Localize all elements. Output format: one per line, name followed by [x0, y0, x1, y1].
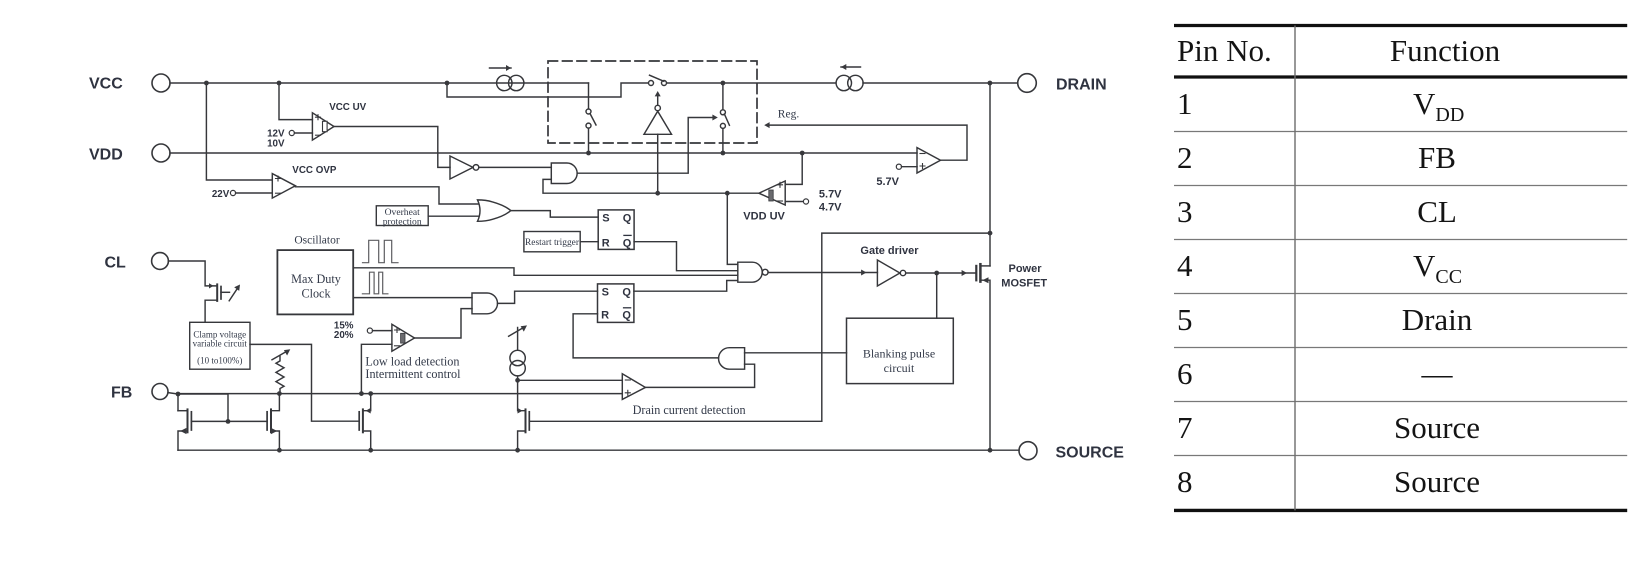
- wire top rail right section: [667, 82, 836, 84]
- wire drain comparator output to AND3 input 2: [645, 364, 754, 387]
- svg-text:—: —: [1421, 356, 1454, 391]
- wire SR1 Qbar to NAND input 2: [634, 242, 738, 271]
- svg-text:SOURCE: SOURCE: [1056, 445, 1125, 462]
- svg-text:CL: CL: [105, 255, 127, 272]
- label 20%: [334, 330, 354, 341]
- svg-text:10V: 10V: [267, 139, 285, 150]
- box restart trigger: [524, 232, 580, 252]
- label Oscillator: [294, 235, 340, 247]
- wire VDD UV line down to NAND input 1: [727, 193, 738, 264]
- wire buffer input from VDD UV output line: [657, 134, 659, 193]
- wire bottom source rail: [178, 449, 1019, 451]
- svg-text:Function: Function: [1390, 33, 1501, 68]
- node dots bottom rail: [277, 448, 992, 453]
- latch SR2: [598, 284, 634, 323]
- wire current source 2 to drain node: [863, 82, 1018, 84]
- label VDD UV: [743, 211, 785, 223]
- transistor power MOSFET: [976, 264, 990, 450]
- comparator low load 15/20: [392, 324, 415, 351]
- table header Pin No.: [1177, 33, 1272, 68]
- wire VDD rail: [170, 152, 917, 154]
- wire AND2 output to SR2 S input: [498, 291, 598, 303]
- svg-text:5: 5: [1177, 302, 1193, 337]
- wire VCC to UV plus input: [279, 83, 312, 120]
- label FB: [111, 385, 132, 402]
- comparator REG 5.7V: [917, 148, 941, 173]
- svg-text:Restart trigger: Restart trigger: [525, 238, 580, 248]
- labels latch SR1 pins: [602, 213, 632, 250]
- label Drain current detection: [633, 403, 746, 417]
- latch SR1: [598, 210, 634, 250]
- wire FB rail: [178, 393, 622, 395]
- label VDD: [89, 147, 123, 164]
- pin DRAIN: [1018, 74, 1037, 93]
- wire oscillator top output to NAND input 3: [353, 268, 738, 276]
- transistor M1: [178, 409, 267, 450]
- svg-text:20%: 20%: [334, 330, 354, 341]
- node dots on VDD UV output line: [655, 191, 729, 196]
- transistor M2: [267, 394, 279, 450]
- wire VCC UV output to NOT gate: [334, 127, 450, 168]
- label Restart trigger: [525, 238, 580, 248]
- wire clamp box output to M3 gate: [250, 344, 359, 421]
- label 22V: [212, 189, 230, 200]
- gate NAND1: [738, 262, 768, 282]
- wire gate driver output to power MOSFET gate: [906, 270, 977, 276]
- wire VCC OVP output to OR1: [295, 187, 478, 204]
- table row 2: [1177, 140, 1456, 175]
- wire VDD UV plus input to VDD rail: [785, 153, 802, 184]
- label Intermittent control: [365, 367, 461, 381]
- svg-text:Drain: Drain: [1402, 302, 1473, 337]
- table row 5: [1177, 302, 1473, 337]
- pin VCC: [152, 74, 170, 92]
- label 15%: [334, 320, 354, 331]
- table row 7: [1177, 410, 1480, 445]
- wire OR1 output to SR1 S input: [511, 211, 598, 218]
- wire VDD UV output line to AND1 lower input: [543, 179, 759, 193]
- svg-text:R: R: [601, 310, 609, 322]
- svg-text:4: 4: [1177, 248, 1193, 283]
- svg-text:6: 6: [1177, 356, 1193, 391]
- svg-text:Q: Q: [622, 286, 631, 298]
- table bottom border thick: [1174, 509, 1627, 512]
- label CL: [105, 255, 127, 272]
- switch S1: [586, 83, 596, 153]
- svg-text:Blanking pulse: Blanking pulse: [863, 346, 935, 360]
- wire SR2 Q to NAND input 4: [634, 281, 738, 292]
- wire AND3 output to SR2 R input: [573, 314, 718, 358]
- label VCC OVP: [292, 165, 337, 176]
- wire VCC to OVP plus input: [206, 83, 272, 180]
- svg-text:Q: Q: [623, 213, 632, 225]
- box blanking pulse circuit: [847, 318, 954, 383]
- inverter NOT1: [450, 156, 479, 179]
- svg-text:Drain current detection: Drain current detection: [633, 403, 746, 417]
- svg-text:Power: Power: [1009, 263, 1043, 275]
- wire FB to mirror gates: [178, 394, 230, 424]
- label Max Duty: [291, 272, 342, 286]
- node junction dots top rail: [204, 81, 992, 86]
- overline SR1 Qbar: [623, 234, 631, 236]
- label 5.7V at VDD UV: [819, 188, 842, 200]
- gate AND3 pointing left: [719, 348, 745, 370]
- comparator drain current detection: [622, 374, 645, 400]
- svg-text:DRAIN: DRAIN: [1056, 77, 1107, 94]
- svg-text:Pin No.: Pin No.: [1177, 33, 1272, 68]
- comparator VCC OVP: [272, 174, 295, 199]
- wire NAND1 output to gate driver: [768, 270, 877, 276]
- label Blanking pulse circuit: [863, 346, 935, 375]
- waveform narrow pulses: [362, 272, 388, 294]
- label Low load detection: [365, 354, 459, 368]
- box oscillator Max Duty Clock: [277, 250, 353, 314]
- svg-text:VCC: VCC: [89, 76, 123, 93]
- switch S2: [649, 75, 667, 85]
- pin SOURCE: [1019, 442, 1037, 460]
- wire restart trigger to SR1 R input: [580, 241, 598, 243]
- comparator VDD UV pointing left: [759, 181, 785, 205]
- table header separator thick: [1174, 75, 1627, 78]
- svg-text:VDD UV: VDD UV: [743, 211, 785, 223]
- inverter gate driver: [877, 260, 905, 286]
- label Gate driver: [860, 245, 919, 257]
- label Overheat protection: [383, 207, 422, 227]
- svg-text:VCC OVP: VCC OVP: [292, 165, 337, 176]
- wire VCC top rail: [170, 82, 589, 84]
- comparator VCC UV minus input terminal: [289, 130, 312, 135]
- svg-text:Clock: Clock: [301, 286, 331, 300]
- label VCC UV: [329, 102, 366, 113]
- wire CL pin to clamp transistor: [168, 261, 217, 286]
- wire AND1 output to switch S3 control: [577, 115, 718, 174]
- wire gate driver output down to blanking box: [936, 273, 938, 318]
- wire mid current source to drain comparator minus: [518, 379, 623, 381]
- wire VCC bypass under current source: [447, 83, 648, 97]
- svg-text:FB: FB: [111, 385, 132, 402]
- pin VDD: [152, 144, 170, 162]
- current source I2: [836, 64, 863, 91]
- wire NOT1 to AND1: [479, 166, 552, 168]
- table row 4: [1177, 248, 1462, 288]
- svg-text:3: 3: [1177, 194, 1193, 229]
- table row 3: [1177, 194, 1457, 229]
- svg-text:Reg.: Reg.: [778, 108, 800, 120]
- table row separators thin: [1174, 132, 1627, 456]
- wire mid current source down to M4 drain: [518, 380, 526, 410]
- label Clamp voltage variable circuit: [193, 330, 248, 366]
- table row 6: [1177, 356, 1454, 391]
- table column divider: [1294, 26, 1296, 511]
- wire blanking output to AND3 input 1: [745, 352, 847, 354]
- node dots FB rail: [176, 391, 374, 396]
- svg-text:5.7V: 5.7V: [876, 176, 899, 188]
- svg-text:1: 1: [1177, 86, 1193, 121]
- node junction dots VDD rail: [586, 151, 805, 156]
- label DRAIN: [1056, 77, 1107, 94]
- comparator VCC OVP minus input terminal: [230, 190, 272, 195]
- svg-text:protection: protection: [383, 216, 422, 227]
- comparator low load plus input terminal: [367, 328, 392, 333]
- label 4.7V at VDD UV: [819, 202, 842, 214]
- label MOSFET: [1001, 278, 1047, 290]
- comparator REG plus input terminal: [896, 164, 917, 169]
- transistor M3: [359, 394, 371, 450]
- label SOURCE: [1056, 445, 1125, 462]
- box clamp voltage variable circuit: [190, 322, 250, 369]
- buffer U-reg triangle with control arrow: [644, 91, 672, 134]
- pin CL: [152, 253, 169, 270]
- gate AND2: [472, 293, 498, 314]
- svg-text:variable circuit: variable circuit: [193, 339, 248, 349]
- svg-text:Intermittent control: Intermittent control: [365, 367, 461, 381]
- svg-text:S: S: [602, 286, 609, 298]
- wire overheat to OR1: [428, 215, 478, 217]
- svg-text:VDD: VDD: [89, 147, 123, 164]
- transistor M4: [518, 408, 822, 450]
- svg-text:MOSFET: MOSFET: [1001, 278, 1047, 290]
- svg-text:circuit: circuit: [884, 361, 915, 375]
- svg-text:Oscillator: Oscillator: [294, 235, 340, 247]
- resistor R1 variable: [272, 349, 290, 394]
- table row 8: [1177, 464, 1480, 499]
- svg-text:8: 8: [1177, 464, 1193, 499]
- table border top thick: [1174, 24, 1627, 27]
- wire low load output up to AND2 lower input: [415, 309, 473, 338]
- pin FB: [152, 384, 168, 400]
- current source I1: [490, 65, 524, 91]
- svg-text:22V: 22V: [212, 189, 230, 200]
- gate OR1: [478, 200, 511, 221]
- switch S3: [720, 83, 729, 153]
- transistor Q-CL clamp: [205, 283, 240, 322]
- svg-text:VCC UV: VCC UV: [329, 102, 366, 113]
- waveform wide pulses: [363, 240, 399, 262]
- comparator VDD UV minus input terminal: [785, 199, 808, 204]
- svg-text:Q: Q: [622, 310, 631, 322]
- box overheat protection: [376, 206, 428, 226]
- label Clock: [301, 286, 331, 300]
- overline SR2 Qbar: [623, 307, 631, 309]
- wire FB pin to rail: [168, 393, 178, 394]
- label 12V: [267, 128, 285, 139]
- current source I3 variable: [509, 325, 527, 382]
- label 5.7V at reg comparator: [876, 176, 899, 188]
- label Power: [1009, 263, 1043, 275]
- labels latch SR2 pins: [601, 286, 631, 321]
- wire drain sense line M4 gate to drain node: [822, 233, 990, 421]
- dashed regulator box: [548, 61, 757, 143]
- svg-text:Q: Q: [623, 237, 632, 249]
- label 10V: [267, 139, 285, 150]
- comparator VCC UV: [312, 113, 334, 140]
- svg-text:(10 to100%): (10 to100%): [197, 355, 242, 365]
- gate AND1: [551, 163, 577, 184]
- svg-text:5.7V: 5.7V: [819, 188, 842, 200]
- svg-text:FB: FB: [1418, 140, 1456, 175]
- svg-text:Max Duty: Max Duty: [291, 272, 342, 286]
- wire low load minus input to FB rail: [361, 344, 392, 393]
- wire REG comparator output feedback arrow: [764, 122, 967, 160]
- wire drain vertical: [988, 83, 993, 266]
- svg-text:Gate driver: Gate driver: [860, 245, 919, 257]
- svg-text:4.7V: 4.7V: [819, 202, 842, 214]
- svg-text:R: R: [602, 237, 610, 249]
- svg-text:2: 2: [1177, 140, 1193, 175]
- table row 1: [1177, 86, 1464, 126]
- label VCC: [89, 76, 123, 93]
- svg-text:S: S: [602, 213, 609, 225]
- svg-text:Source: Source: [1394, 464, 1480, 499]
- wire oscillator bottom output to AND2: [353, 297, 472, 299]
- svg-text:CL: CL: [1417, 194, 1457, 229]
- svg-text:Source: Source: [1394, 410, 1480, 445]
- table header Function: [1390, 33, 1501, 68]
- svg-text:7: 7: [1177, 410, 1193, 445]
- label Reg.: [778, 108, 800, 120]
